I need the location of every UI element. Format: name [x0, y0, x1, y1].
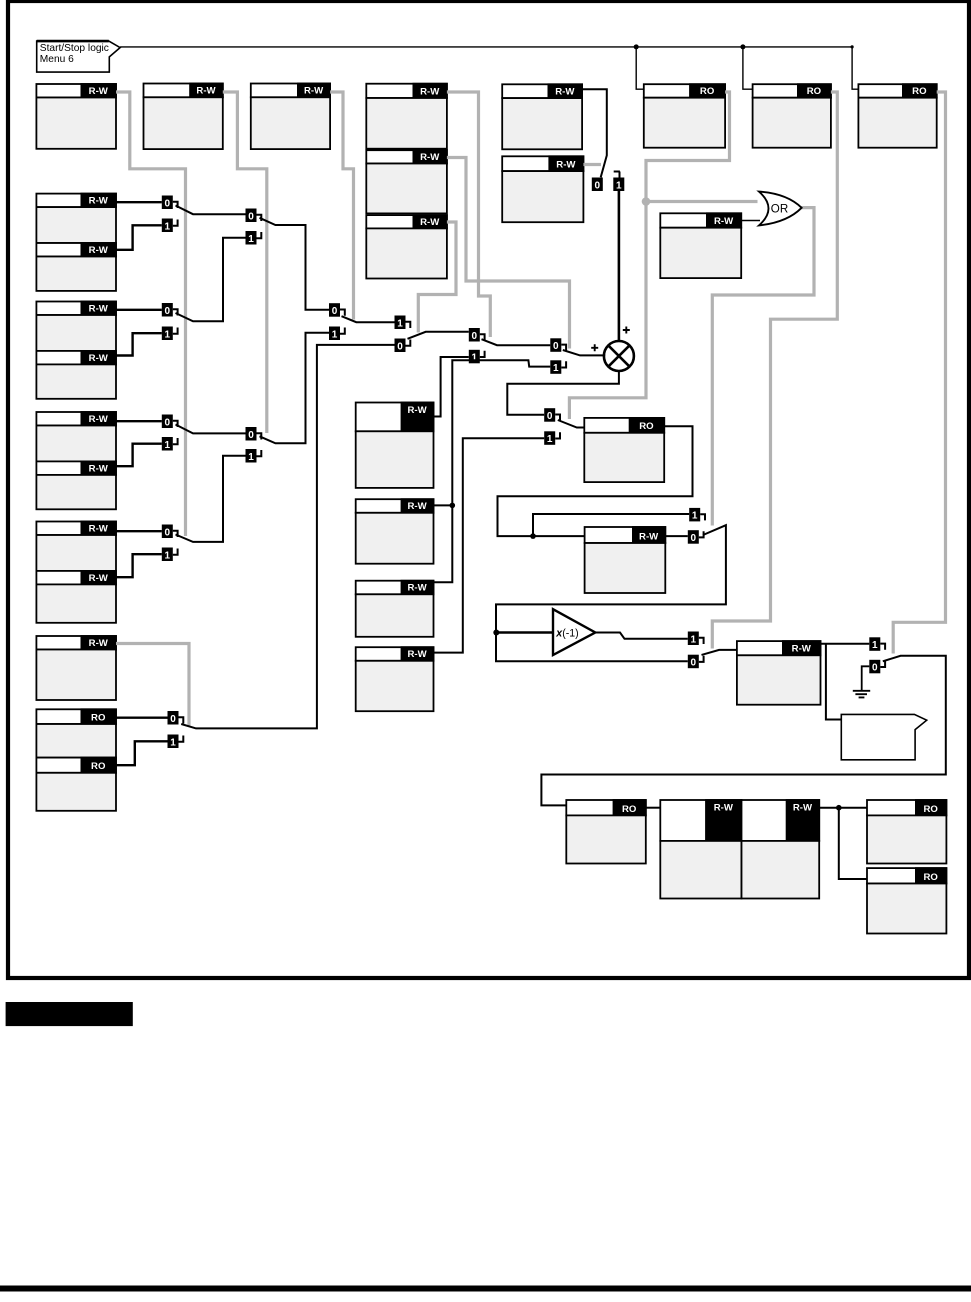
svg-text:R-W: R-W: [89, 638, 109, 649]
gray bus from box row1-4c: [418, 222, 456, 333]
switch pair4 contact 1: [162, 548, 178, 562]
wire RO mid-right loop: [498, 426, 693, 536]
switch inverter contact 0: [688, 655, 704, 669]
switch loop contact 1: [689, 508, 705, 522]
wire mult-0 wiper to RO box: [558, 420, 585, 428]
switch inverter contact 1: [688, 632, 704, 646]
wire box to OR gate lower input: [741, 220, 760, 222]
wire inverter wiper to R-W box: [702, 650, 737, 655]
diagram border frame: [8, 1, 969, 978]
switch after multiplier contact 0: [544, 408, 560, 422]
switch level6 contact 0: [550, 338, 566, 352]
svg-text:RO: RO: [622, 804, 637, 815]
wire level4 wiper: [408, 332, 469, 339]
wire pair2-A to 0: [116, 309, 162, 311]
wire pair1 wiper: [176, 206, 246, 215]
wire mid-2 out: [434, 504, 453, 506]
wire pair1-B to 1: [116, 225, 162, 250]
svg-text:RO: RO: [807, 86, 822, 97]
svg-text:1: 1: [692, 511, 698, 522]
black title bar: [6, 1002, 133, 1026]
wire R-W box to output switch 1: [821, 643, 870, 645]
wire RO-pair wiper long: [181, 345, 394, 729]
junction at top wire end: [851, 45, 854, 48]
svg-text:1: 1: [248, 452, 254, 463]
switch level2b contact 0: [246, 427, 262, 441]
OR gate: [759, 192, 802, 226]
junction loop: [530, 533, 536, 539]
wire level2b wiper: [260, 333, 330, 444]
wire double box out: [819, 807, 867, 809]
switch output contact 1: [869, 637, 885, 651]
wire pair4-B to 1: [116, 554, 162, 577]
svg-text:1: 1: [547, 434, 553, 445]
wire mid-1 up to level5-1: [434, 357, 469, 417]
wire level6 wiper to multiplier: [563, 350, 605, 355]
wire mid-2 mid-3 riser: [434, 360, 551, 582]
svg-text:R-W: R-W: [555, 87, 575, 98]
parameter box row1-1 R-W: [36, 83, 117, 149]
parameter box pair3-A R-W: [36, 411, 117, 461]
svg-text:0: 0: [547, 411, 553, 422]
parameter box pair1-B R-W: [36, 242, 117, 291]
svg-text:R-W: R-W: [420, 86, 440, 97]
parameter box RO-pair-A RO: [36, 708, 117, 757]
parameter box row1-4b R-W: [366, 149, 448, 213]
svg-text:R-W: R-W: [89, 245, 109, 256]
gray bus from single box: [116, 644, 189, 726]
parameter box row1-7 RO: [753, 83, 832, 147]
junction mid riser: [450, 503, 456, 509]
wire pair2-B to 1: [116, 333, 162, 355]
svg-text:R-W: R-W: [407, 649, 427, 660]
svg-text:1: 1: [248, 234, 254, 245]
svg-text:0: 0: [248, 211, 254, 222]
switch seq contact 1 horizontal: [613, 172, 624, 192]
wire RO-pair-B to 1: [116, 741, 168, 765]
parameter box single R-W: [36, 635, 117, 700]
junction inverter input: [493, 630, 499, 636]
switch level5 contact 0: [469, 328, 485, 342]
svg-text:RO: RO: [639, 421, 654, 432]
parameter box RO-pair-B RO: [36, 757, 117, 811]
svg-text:Menu 6: Menu 6: [40, 54, 74, 65]
gray stub from box row1-5b: [583, 163, 601, 166]
svg-text:R-W: R-W: [420, 217, 440, 228]
parameter box row1-3 R-W: [251, 83, 331, 150]
wire branch to box RO-6: [636, 47, 644, 89]
switch RO-pair contact 1: [168, 735, 184, 749]
parameter box pair2-A R-W: [36, 301, 117, 351]
parameter box bottom RO-3: [867, 867, 947, 933]
svg-text:1: 1: [332, 329, 338, 340]
wire from banner across top: [120, 47, 858, 89]
svg-text:RO: RO: [700, 86, 715, 97]
ground symbol: [853, 666, 870, 697]
banner Start/Stop logic Menu 6: [37, 41, 120, 72]
switch level6 contact 1: [550, 360, 566, 374]
svg-text:0: 0: [691, 658, 697, 669]
svg-text:R-W: R-W: [407, 405, 427, 416]
svg-text:R-W: R-W: [196, 86, 216, 97]
svg-text:1: 1: [691, 634, 697, 645]
footer rule: [0, 1286, 971, 1292]
svg-text:R-W: R-W: [420, 152, 440, 163]
switch pair3 contact 1: [162, 437, 178, 451]
svg-text:1: 1: [616, 180, 622, 191]
svg-text:1: 1: [170, 737, 176, 748]
wire pair1-A to 0: [116, 201, 162, 203]
svg-text:OR: OR: [771, 203, 788, 216]
svg-text:0: 0: [332, 306, 338, 317]
parameter box bottom RO-1: [566, 799, 646, 863]
gray bus from box row1-3: [330, 92, 353, 320]
wire mid-4 to multiplier-out 1: [434, 438, 545, 652]
svg-text:0: 0: [170, 714, 176, 725]
wire branch to bottom RO-3: [839, 808, 867, 879]
switch output contact 0: [869, 660, 885, 674]
parameter box RO mid-right: [584, 417, 665, 482]
wire multiplier output: [507, 371, 619, 415]
wire loop wiper down to inverter: [496, 525, 726, 661]
svg-text:R-W: R-W: [556, 160, 576, 171]
parameter box row1-5 R-W: [502, 83, 583, 149]
switch pair3 contact 0: [162, 415, 178, 429]
svg-text:0: 0: [472, 331, 478, 342]
switch level3 contact 1: [329, 327, 345, 341]
switch level3 contact 0: [329, 303, 345, 317]
switch level2b contact 1: [246, 449, 262, 463]
parameter box row1-6 RO: [644, 83, 726, 147]
parameter box pair4-A R-W: [36, 521, 117, 571]
switch level2a contact 0: [246, 209, 262, 223]
inverter x(-1) triangle: [553, 609, 595, 655]
gray branch to OR gate input: [646, 200, 758, 203]
svg-text:R-W: R-W: [89, 573, 109, 584]
parameter box bottom RO-2: [867, 799, 947, 863]
svg-text:1: 1: [165, 221, 171, 232]
svg-text:0: 0: [165, 306, 171, 317]
svg-text:R-W: R-W: [792, 644, 812, 655]
svg-text:R-W: R-W: [89, 86, 109, 97]
parameter box mid-1 tall R-W: [356, 402, 435, 488]
wire to inverter input: [496, 631, 553, 634]
switch level2a contact 1: [246, 231, 262, 245]
parameter box mid-4 R-W: [356, 646, 435, 711]
svg-text:RO: RO: [91, 761, 106, 772]
switch seq contact 0 horizontal: [592, 178, 603, 192]
switch pair2 contact 1: [162, 327, 178, 341]
wire inverter output to 1: [595, 633, 688, 639]
svg-text:R-W: R-W: [304, 86, 324, 97]
wire pair3-A to 0: [116, 420, 162, 422]
wire pair2 wiper to level2a-1: [176, 238, 246, 321]
svg-text:R-W: R-W: [89, 196, 109, 207]
wire loop branch to 1: [533, 514, 689, 536]
flag destination banner: [841, 714, 926, 759]
parameter box bottom double-left R-W: [660, 799, 742, 898]
switch level4 contact 1: [395, 316, 411, 330]
gray bus from box row1-4a: [447, 92, 490, 337]
gray bus OR output: [712, 208, 814, 526]
multiplier circle: [591, 327, 634, 372]
switch pair4 contact 0: [162, 525, 178, 539]
wire pair4-A to 0: [116, 530, 162, 532]
gray bus from box row1-8: [893, 92, 945, 654]
switch level5 contact 1: [469, 350, 485, 364]
parameter box bottom double-right R-W: [742, 799, 821, 898]
svg-text:1: 1: [872, 640, 878, 651]
gray bus from box row1-7: [712, 92, 837, 649]
gray bus from box row1-6 to OR: [569, 92, 729, 419]
junction bottom row: [836, 805, 842, 811]
junction on top wire 2: [740, 44, 745, 49]
switch after multiplier contact 1: [544, 431, 560, 445]
svg-text:0: 0: [165, 527, 171, 538]
wire seq 1 to multiplier top: [618, 191, 621, 341]
svg-text:R-W: R-W: [89, 523, 109, 534]
switch loop contact 0: [688, 530, 704, 544]
svg-text:R-W: R-W: [89, 353, 109, 364]
svg-text:0: 0: [553, 341, 559, 352]
svg-text:R-W: R-W: [714, 216, 734, 227]
switch pair1 contact 0: [162, 196, 178, 210]
svg-text:R-W: R-W: [407, 583, 427, 594]
svg-text:1: 1: [472, 353, 478, 364]
switch pair1 contact 1: [162, 219, 178, 233]
svg-text:0: 0: [165, 417, 171, 428]
switch pair2 contact 0: [162, 303, 178, 317]
svg-text:1: 1: [165, 550, 171, 561]
wire RO-pair-A to 0: [116, 717, 168, 719]
wire bottom RO-1 to double box: [646, 807, 661, 809]
gray bus from box row1-1: [116, 92, 186, 536]
svg-text:0: 0: [872, 663, 878, 674]
wire pair3 wiper: [176, 425, 246, 434]
wire box5 to seq switch: [582, 89, 607, 177]
parameter box pair2-B R-W: [36, 350, 117, 399]
svg-text:RO: RO: [912, 86, 927, 97]
gray bus from box row1-2: [223, 92, 267, 433]
switch level4 contact 0: [395, 339, 411, 353]
wire level2a wiper: [260, 218, 330, 310]
parameter box pair1-A R-W: [36, 193, 117, 243]
svg-text:R-W: R-W: [793, 803, 813, 814]
wire level3 wiper: [342, 316, 395, 322]
parameter box row1-4a R-W: [366, 83, 448, 149]
svg-text:1: 1: [553, 363, 559, 374]
svg-text:RO: RO: [91, 712, 106, 723]
svg-text:Start/Stop logic: Start/Stop logic: [40, 43, 109, 54]
parameter box mid-2 R-W: [356, 498, 435, 563]
gray junction dot at OR input: [642, 197, 651, 206]
junction on top wire 1: [634, 44, 639, 49]
svg-text:R-W: R-W: [407, 501, 427, 512]
svg-text:R-W: R-W: [89, 414, 109, 425]
parameter box R-W loop: [585, 526, 667, 593]
wire pair4 wiper to level2b-1: [176, 456, 246, 542]
wire branch to box RO-7: [743, 47, 753, 89]
parameter box under OR gate R-W: [660, 212, 742, 278]
svg-text:R-W: R-W: [89, 303, 109, 314]
svg-text:R-W: R-W: [89, 463, 109, 474]
svg-text:1: 1: [165, 329, 171, 340]
svg-text:1: 1: [397, 318, 403, 329]
svg-text:RO: RO: [924, 804, 939, 815]
svg-text:RO: RO: [924, 872, 939, 883]
parameter box row1-2 R-W: [144, 83, 224, 150]
switch RO-pair contact 0: [168, 711, 184, 725]
wire level5 wiper: [482, 339, 551, 345]
svg-text:0: 0: [248, 430, 254, 441]
parameter box row1-8 RO: [858, 83, 937, 147]
svg-text:0: 0: [595, 180, 601, 191]
parameter box R-W after inverter: [737, 640, 822, 705]
svg-text:0: 0: [397, 341, 403, 352]
wire output wiper to bottom row: [541, 656, 945, 806]
svg-text:0: 0: [165, 198, 171, 209]
wire pair3-B to 1: [116, 444, 162, 467]
parameter box row1-4c R-W: [366, 214, 448, 278]
wire R-W loop box to 0: [665, 535, 688, 537]
svg-text:R-W: R-W: [714, 803, 734, 814]
parameter box row1-5b R-W: [502, 155, 584, 222]
parameter box mid-3 R-W: [356, 580, 435, 637]
svg-text:1: 1: [165, 440, 171, 451]
parameter box pair3-B R-W: [36, 461, 117, 510]
gray bus from box row1-4b: [447, 158, 570, 349]
wire branch down to flag: [826, 644, 841, 720]
svg-text:x(-1): x(-1): [555, 627, 578, 639]
svg-text:0: 0: [691, 533, 697, 544]
parameter box pair4-B R-W: [36, 570, 117, 623]
svg-text:R-W: R-W: [639, 531, 659, 542]
